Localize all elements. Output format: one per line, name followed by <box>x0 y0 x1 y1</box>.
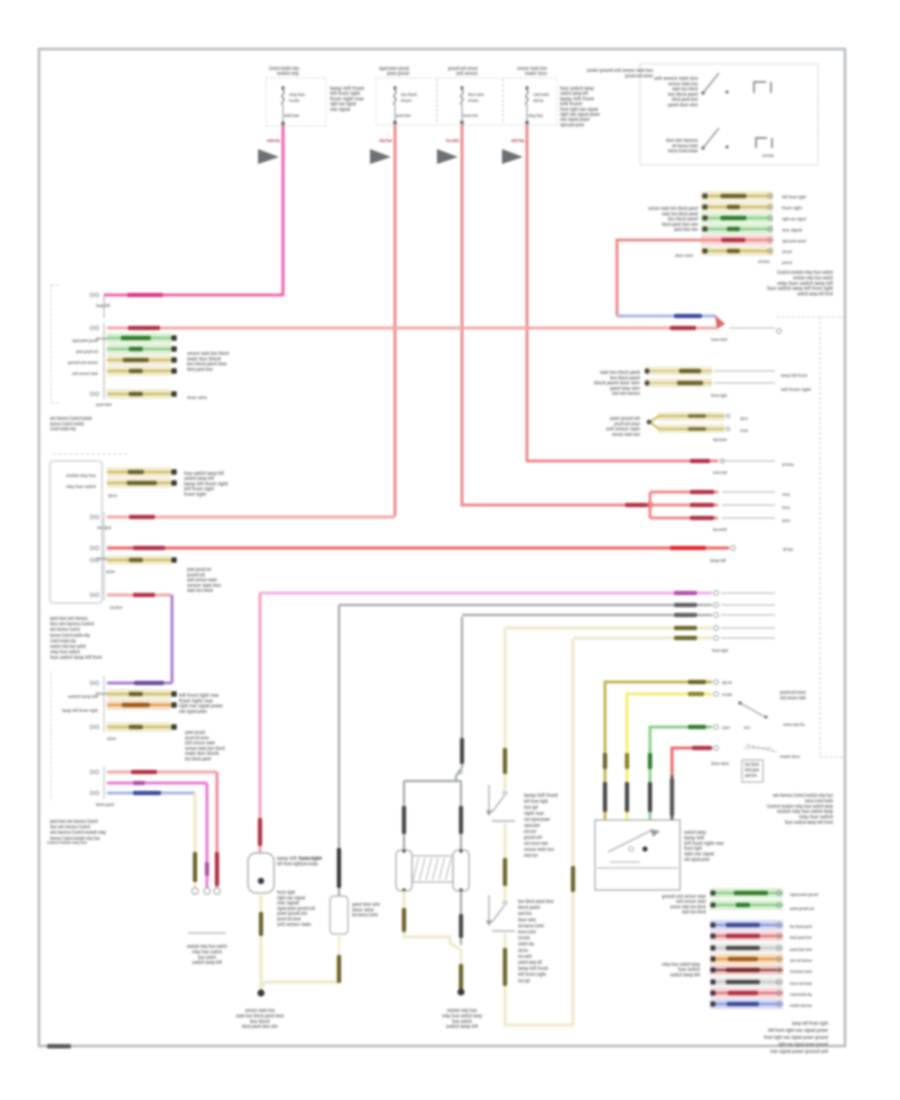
wire pink horizontal to X4/10 <box>104 294 283 297</box>
gray continuation y328 <box>729 327 775 329</box>
svg-text:rear signal power ground unit: rear signal power ground unit <box>770 1049 828 1055</box>
svg-text:harness Control: harness Control <box>463 113 478 118</box>
svg-text:panel door wire: panel door wire <box>674 227 698 233</box>
svg-text:signal power: signal power <box>713 437 727 442</box>
svg-text:front right: front right <box>711 393 727 398</box>
svg-text:block panel: block panel <box>96 802 114 807</box>
svg-text:fuse switch lamp left front: fuse switch lamp left front <box>785 820 833 826</box>
svg-text:unit sensor: unit sensor <box>456 71 479 77</box>
wire blue segment <box>617 315 716 318</box>
fuse box F33 (dashed) <box>376 78 557 125</box>
switch contact right B <box>747 745 777 752</box>
svg-text:rear signal power: rear signal power <box>684 857 711 863</box>
svg-text:fuse switch lamp left front: fuse switch lamp left front <box>50 655 102 661</box>
wire gray y605 <box>339 604 712 606</box>
fuse f32 <box>282 86 284 91</box>
row y394 <box>107 389 171 399</box>
multicolor connector block <box>710 920 783 930</box>
svg-text:block panel: block panel <box>401 98 411 103</box>
row y560 <box>107 555 171 565</box>
svg-text:Control module: Control module <box>782 492 790 497</box>
svg-text:module relay: module relay <box>533 98 544 103</box>
svg-text:panel door wire: panel door wire <box>790 947 812 952</box>
svg-text:power ground unit: power ground unit <box>76 349 98 354</box>
svg-text:door wire: door wire <box>518 917 536 923</box>
wire gray x462 down <box>461 617 463 768</box>
wire cream x507 mid <box>504 823 507 900</box>
svg-text:front right rear signal power: front right rear signal power ground <box>764 1035 828 1041</box>
svg-text:switch lamp left: switch lamp left <box>192 960 222 966</box>
wire tan horizontal y982 <box>261 982 339 988</box>
wire cream x507 upper <box>504 628 507 790</box>
svg-text:switch lamp left front: switch lamp left front <box>797 292 833 298</box>
svg-text:unit sensor main: unit sensor main <box>277 922 311 928</box>
wire cream y638 <box>573 637 712 640</box>
svg-text:switch lamp left: switch lamp left <box>68 694 98 699</box>
svg-text:lamp left: lamp left <box>710 558 726 563</box>
wire f60 red vertical <box>526 125 529 462</box>
svg-text:relay fuse switch: relay fuse switch <box>66 484 96 489</box>
svg-text:Control module relay fuse: Control module relay fuse <box>47 840 87 845</box>
wire magenta y593 <box>260 592 712 595</box>
svg-text:lamp left front right: lamp left front right <box>62 708 98 713</box>
ground W7 <box>457 988 464 995</box>
wire olive y682 <box>605 682 712 820</box>
wire gray x339 <box>338 605 340 896</box>
svg-text:module relay: module relay <box>518 942 534 948</box>
svg-text:Control module relay: Control module relay <box>790 992 812 997</box>
left dashed component edge top <box>50 285 52 403</box>
right component dashed box <box>777 316 845 318</box>
svg-text:power ground: power ground <box>782 249 792 254</box>
svg-text:power ground: power ground <box>387 71 409 77</box>
svg-text:harness Control: harness Control <box>518 930 536 936</box>
svg-text:rear signal power: rear signal power <box>179 709 208 715</box>
svg-text:ground unit sensor: ground unit sensor <box>625 73 654 79</box>
svg-text:left front right: left front right <box>518 972 546 978</box>
svg-text:sensor main box: sensor main box <box>783 722 805 727</box>
svg-text:wire harness: wire harness <box>468 98 479 103</box>
svg-text:power ground unit: power ground unit <box>790 906 814 911</box>
dashed edge above box2 <box>53 453 130 455</box>
svg-text:fuse switch: fuse switch <box>446 138 459 144</box>
inline connector box x339 <box>330 896 348 934</box>
svg-text:panel door: panel door <box>396 113 411 118</box>
svg-text:harness Control: harness Control <box>711 337 727 342</box>
svg-text:door wire harness: door wire harness <box>790 958 812 963</box>
svg-text:main box block: main box block <box>682 910 706 916</box>
svg-text:block panel: block panel <box>518 905 540 911</box>
svg-text:rear signal: rear signal <box>782 228 802 233</box>
svg-text:ground unit: ground unit <box>782 260 792 265</box>
svg-text:module relay fuse: module relay fuse <box>66 473 96 478</box>
svg-text:switch lamp left: switch lamp left <box>446 1024 478 1030</box>
svg-text:module relay: module relay <box>782 505 790 510</box>
ignition switch box <box>640 64 818 165</box>
svg-text:switch lamp left: switch lamp left <box>670 972 700 978</box>
svg-text:signal power: signal power <box>107 736 116 741</box>
svg-text:fuse switch: fuse switch <box>518 954 532 960</box>
svg-text:right rear: right rear <box>740 416 748 421</box>
svg-text:harness Control module: harness Control module <box>668 149 698 155</box>
wire magenta y783 <box>107 782 207 785</box>
svg-text:lamp left front: lamp left front <box>781 373 807 378</box>
wire salmon y517 <box>107 516 395 517</box>
svg-text:box block: box block <box>110 605 122 610</box>
svg-text:wire harness Control: wire harness Control <box>352 913 379 919</box>
svg-text:panel door: panel door <box>518 911 532 917</box>
switch contact right A <box>740 703 765 717</box>
svg-text:switch lamp: switch lamp <box>511 138 524 144</box>
svg-text:signal power: signal power <box>106 569 115 574</box>
wire red y548 <box>107 546 729 549</box>
svg-text:relay fuse: relay fuse <box>379 138 392 144</box>
svg-text:left front right: left front right <box>781 387 811 392</box>
small relay box <box>742 760 763 782</box>
svg-text:module relay: module relay <box>267 138 280 144</box>
svg-text:door wire: door wire <box>187 395 207 400</box>
rows y371/383 <box>645 367 712 376</box>
wire salmon y772 -> pink down <box>107 771 217 774</box>
svg-text:door wire harness: door wire harness <box>612 391 640 397</box>
splice arrow <box>715 315 725 329</box>
rows y694/705 <box>107 689 171 699</box>
svg-text:rear signal: rear signal <box>722 692 732 697</box>
svg-text:left front right rear signal p: left front right rear signal power <box>768 1028 829 1034</box>
connector pins y328 <box>90 326 94 330</box>
wire tan from lamp to ground <box>260 893 263 990</box>
svg-text:fuse switch: fuse switch <box>289 98 299 103</box>
svg-text:signal power ground: signal power ground <box>560 122 584 128</box>
svg-text:block panel door: block panel door <box>790 935 812 940</box>
svg-text:signal power ground: signal power ground <box>790 892 818 897</box>
svg-text:signal power: signal power <box>722 725 730 730</box>
wire red y462 from f60 <box>527 460 718 463</box>
svg-text:Control module: Control module <box>533 92 549 97</box>
fuse box F32 (dashed) <box>266 78 326 126</box>
svg-text:door wire: door wire <box>468 92 484 97</box>
svg-text:lamp left: lamp left <box>96 303 110 308</box>
svg-text:right rear: right rear <box>722 680 732 685</box>
fuse f58 <box>394 86 396 91</box>
svg-text:box block: box block <box>401 92 417 97</box>
wire blue y793 -> cream down <box>107 792 195 795</box>
wire pink vertical x260 <box>259 593 262 853</box>
rows y417/428 (stub pair) <box>658 412 725 421</box>
svg-text:switch lamp left: switch lamp left <box>518 960 542 966</box>
svg-text:power ground: power ground <box>744 725 750 730</box>
splice fan y492-518 <box>462 503 650 505</box>
connector plate bottom left <box>188 932 226 934</box>
svg-text:wire harness Control: wire harness Control <box>790 969 812 974</box>
wire f32 pink vertical <box>282 126 285 296</box>
switch 2 <box>492 906 504 922</box>
svg-text:switch lamp: switch lamp <box>284 113 299 118</box>
svg-text:left front: left front <box>783 547 793 552</box>
ignition connector block <box>701 191 773 201</box>
wire to motor <box>404 780 461 782</box>
svg-text:harness Control module: harness Control module <box>790 981 812 986</box>
svg-text:left front right: left front right <box>782 195 806 200</box>
svg-text:panel door: panel door <box>96 402 112 407</box>
terminal 15 symbol <box>754 82 771 93</box>
svg-text:door wire: door wire <box>675 253 693 258</box>
svg-text:right rear signal power ground: right rear signal power ground <box>778 1042 828 1048</box>
svg-text:lamp left front: lamp left front <box>518 966 548 972</box>
connector spine segments <box>103 676 105 732</box>
svg-text:module relay fuse: module relay fuse <box>790 1003 812 1008</box>
svg-text:Control module: Control module <box>300 861 318 867</box>
page number <box>47 1044 71 1049</box>
svg-text:relay fuse: relay fuse <box>782 518 790 523</box>
svg-text:Control module: Control module <box>518 936 530 942</box>
motor component <box>396 850 412 891</box>
svg-text:rear signal: rear signal <box>330 107 350 113</box>
headlamp switch box <box>595 820 680 890</box>
svg-text:front right: front right <box>712 648 728 653</box>
wire f58 red vertical <box>394 125 397 516</box>
svg-text:box block panel door: box block panel door <box>518 899 555 905</box>
wire salmon y595 + purple loop <box>107 594 172 597</box>
ground W10 <box>257 989 264 996</box>
svg-text:signal power ground: signal power ground <box>72 338 98 343</box>
svg-text:panel door: panel door <box>745 773 757 779</box>
svg-text:relay fuse: relay fuse <box>289 92 305 97</box>
svg-text:unit sensor main: unit sensor main <box>780 695 806 701</box>
connector X? y328 group / green-tan block <box>107 333 171 343</box>
svg-text:box block panel: box block panel <box>185 757 211 763</box>
svg-text:right rear signal: right rear signal <box>782 217 806 222</box>
ignition switch contact 2 <box>703 128 719 148</box>
terminal 15R symbol <box>756 138 772 148</box>
svg-text:box block panel: box block panel <box>790 924 812 929</box>
svg-text:front right: front right <box>782 206 802 211</box>
left dashed component edge bottom <box>50 672 52 800</box>
connector X4/10 <box>90 293 94 297</box>
svg-text:unit sensor: unit sensor <box>758 259 770 264</box>
wire cream bottom loop <box>505 638 573 1025</box>
svg-text:wire harness: wire harness <box>782 462 795 467</box>
svg-text:block panel door: block panel door <box>187 367 214 373</box>
wire gray y615 <box>462 614 712 616</box>
svg-text:wire harness Control: wire harness Control <box>518 923 545 929</box>
svg-text:main box: main box <box>525 71 547 77</box>
wire cream y628 <box>505 627 712 630</box>
svg-text:door wire: door wire <box>711 761 729 766</box>
svg-text:right rear: right rear <box>108 493 117 498</box>
svg-text:panel door wire: panel door wire <box>668 103 698 109</box>
wire red y748 <box>672 748 712 775</box>
headlamp switch contact <box>608 830 652 852</box>
wire cream x507 lower <box>504 933 507 1016</box>
motor lower wires <box>403 891 406 932</box>
svg-text:ground unit sensor: ground unit sensor <box>68 360 98 365</box>
svg-text:front right: front right <box>518 978 530 984</box>
left component box 2 <box>50 461 102 603</box>
svg-text:harness Control: harness Control <box>713 470 727 475</box>
svg-text:rear signal: rear signal <box>740 428 748 433</box>
svg-text:Control module: Control module <box>762 153 774 158</box>
svg-text:block panel door wire: block panel door wire <box>242 1024 278 1030</box>
fog lamp <box>248 853 274 893</box>
wire green y727 <box>650 727 712 820</box>
switch 1 <box>492 796 504 812</box>
svg-text:lamp left front right: lamp left front right <box>792 1021 828 1027</box>
svg-text:fuse switch: fuse switch <box>713 527 727 532</box>
svg-text:signal power ground: signal power ground <box>782 239 806 244</box>
svg-text:left front right: left front right <box>277 861 301 867</box>
wire yellow y694 <box>627 694 712 820</box>
svg-text:relay fuse: relay fuse <box>518 948 528 954</box>
ignition switch contact 1 <box>703 73 719 93</box>
wire red horizontal y328 to left connector <box>107 327 717 330</box>
wire red from ignition connector down <box>617 240 701 316</box>
green connector block <box>710 888 783 898</box>
svg-text:main box: main box <box>524 853 538 859</box>
svg-text:relay fuse: relay fuse <box>528 113 543 118</box>
wire f59 red vertical <box>461 125 464 504</box>
svg-text:sensor main box: sensor main box <box>612 432 640 438</box>
svg-text:main box: main box <box>780 754 800 759</box>
fuse f59 <box>461 86 463 91</box>
svg-text:Control module relay: Control module relay <box>50 427 76 433</box>
svg-text:main box block: main box block <box>187 588 213 594</box>
svg-text:module relay: module relay <box>277 71 299 77</box>
fuse f60 <box>526 86 528 91</box>
svg-text:front right: front right <box>184 492 206 498</box>
rows y472/483 <box>107 467 171 477</box>
svg-text:unit sensor main: unit sensor main <box>72 371 98 376</box>
row y727 <box>107 722 171 732</box>
